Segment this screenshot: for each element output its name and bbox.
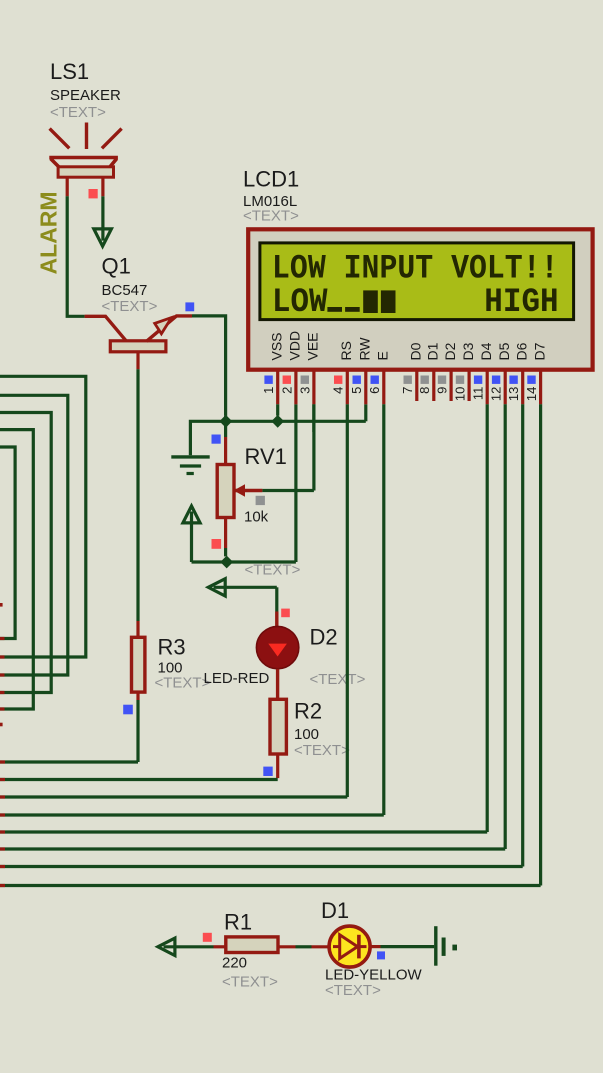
resistor R2 bottom stub	[276, 754, 279, 778]
svg-text:<TEXT>: <TEXT>	[155, 675, 211, 692]
terminal arrow left (R1 input net)	[158, 938, 214, 955]
svg-text:LCD1: LCD1	[243, 167, 299, 192]
speaker LS1 labels	[50, 59, 121, 121]
wire bus line to pin4 RS (bottom)	[0, 795, 347, 798]
svg-text:<TEXT>: <TEXT>	[245, 562, 301, 579]
junction Q1 emitter / RV1 top / ground rail	[219, 415, 232, 428]
svg-text:E: E	[375, 351, 391, 360]
speaker LS1 horn and body	[49, 158, 118, 178]
wire pin4 RS long riser	[346, 404, 349, 797]
transistor Q1 labels	[102, 254, 158, 316]
pin marker square (D1 cathode, blue)	[377, 951, 385, 959]
svg-text:<TEXT>: <TEXT>	[243, 208, 299, 225]
svg-text:D5: D5	[496, 342, 512, 360]
svg-text:VDD: VDD	[287, 331, 303, 361]
svg-text:14: 14	[524, 387, 539, 401]
resistor R2 labels	[294, 699, 350, 760]
potentiometer RV1 top stub	[224, 416, 227, 437]
svg-text:D3: D3	[460, 342, 476, 360]
svg-text:11: 11	[471, 387, 486, 401]
svg-text:HIGH: HIGH	[484, 284, 558, 322]
svg-text:SPEAKER: SPEAKER	[50, 87, 121, 104]
wire Q1 base down to R3	[136, 369, 139, 621]
LCD LCD1 outer body	[248, 229, 592, 369]
wire loop V2	[0, 430, 33, 709]
speaker LS1 sound rays	[50, 123, 122, 150]
potentiometer RV1 body	[217, 465, 234, 518]
resistor R3 body	[132, 637, 145, 692]
LCD LCD1 screen	[260, 243, 574, 320]
resistor R3 labels	[155, 635, 211, 692]
potentiometer RV1 labels	[244, 444, 301, 579]
svg-text:D7: D7	[531, 342, 547, 360]
svg-text:D0: D0	[408, 342, 424, 360]
svg-text:2: 2	[279, 387, 294, 394]
svg-text:BC547: BC547	[102, 282, 148, 299]
potentiometer RV1 bottom stub	[224, 518, 227, 549]
terminal arrow left (to D2 anode net)	[208, 579, 276, 596]
wire +5V rail to pin2 VDD riser	[192, 404, 296, 562]
wire bus line to pin6 E (bottom)	[0, 813, 384, 816]
wire bus line to pin13 D6 (bottom)	[0, 865, 523, 868]
svg-text:<TEXT>: <TEXT>	[325, 982, 381, 999]
transistor Q1 collector lead	[85, 316, 127, 341]
LED D2 cathode lead to R2	[276, 669, 279, 700]
resistor R1 left stub	[214, 945, 226, 948]
pin marker square (R2 bottom, blue)	[263, 767, 272, 776]
svg-text:8: 8	[417, 387, 432, 394]
wire speaker right leg down to terminal arrow	[101, 196, 104, 240]
transistor Q1 emitter lead with arrowhead	[147, 316, 193, 341]
svg-text:ALARM: ALARM	[36, 191, 62, 274]
transistor Q1 base lead stub	[136, 352, 139, 370]
wire down to LED D2	[275, 587, 278, 611]
wire RV1 wiper to pin3 VEE riser	[262, 404, 314, 490]
resistor R2 body	[270, 699, 286, 754]
wire D1 to battery terminal	[370, 945, 434, 948]
off-page pin stubs at left edge	[0, 639, 5, 886]
svg-text:9: 9	[435, 387, 450, 394]
wire R1 to D1	[278, 945, 330, 948]
svg-text:13: 13	[506, 387, 521, 401]
wire speaker left leg down to Q1 collector corner	[66, 196, 85, 316]
svg-text:VEE: VEE	[305, 332, 321, 360]
off-page pin stub (left edge, y604)	[0, 603, 3, 607]
wire pin3 VEE riser (upper part)	[312, 404, 315, 432]
pin marker square (Q1 emitter, blue)	[185, 302, 194, 311]
svg-text:<TEXT>: <TEXT>	[222, 974, 278, 991]
wire pin14 D7 long riser	[539, 404, 542, 885]
svg-text:6: 6	[367, 387, 382, 394]
wire bus line to R2 (bottom)	[0, 778, 278, 781]
svg-text:10: 10	[453, 387, 468, 401]
svg-text:<TEXT>: <TEXT>	[50, 104, 106, 121]
svg-text:7: 7	[400, 387, 415, 394]
resistor R1 body	[226, 937, 278, 953]
svg-text:5: 5	[349, 387, 364, 394]
svg-text:R3: R3	[158, 635, 186, 660]
pin marker square (RV1 bottom, red)	[212, 539, 222, 549]
wire pin1 VSS to ground-rail junction	[276, 404, 279, 415]
junction RV1 bottom / +5V rail	[220, 556, 233, 569]
svg-text:10k: 10k	[244, 509, 269, 526]
wire pin5 RW riser to ground rail	[364, 404, 367, 421]
LCD LCD1 pin numbers 1-14	[261, 387, 539, 401]
wire pin12 D5 long riser	[504, 404, 507, 849]
transistor Q1 base bar	[110, 341, 166, 352]
wire Q1 emitter to ground rail	[192, 316, 226, 416]
LED D2 anode stub	[275, 612, 278, 629]
wire pin6 E long riser	[382, 404, 385, 815]
potentiometer RV1 wiper arrow	[234, 484, 263, 497]
LED D1 body	[329, 926, 370, 967]
svg-text:<TEXT>: <TEXT>	[294, 742, 350, 759]
resistor R1 labels	[222, 910, 278, 991]
LED D1 labels	[321, 898, 423, 999]
wire loop V5 (outermost nested loop)	[0, 376, 86, 657]
svg-text:LED-YELLOW: LED-YELLOW	[325, 967, 423, 984]
battery / cell terminal symbol	[436, 926, 444, 966]
resistor R3 top stub	[136, 621, 139, 638]
svg-text:Q1: Q1	[102, 254, 131, 279]
pin marker square (RV1 wiper, gray)	[256, 496, 265, 505]
svg-text:LOW INPUT VOLT!!: LOW INPUT VOLT!!	[272, 250, 559, 288]
off-page pin stub (left edge, y724.5)	[0, 723, 3, 727]
wire ground rail (VSS/RW net)	[190, 421, 365, 455]
svg-text:<TEXT>: <TEXT>	[310, 671, 366, 688]
svg-text:3: 3	[297, 387, 312, 394]
svg-text:4: 4	[331, 387, 346, 394]
wire bus line to pin14 D7 (bottom)	[0, 884, 541, 887]
terminal arrow down (alarm output)	[94, 229, 112, 246]
wire pin13 D6 long riser	[521, 404, 524, 866]
pin marker square (RV1 top, blue)	[212, 435, 221, 444]
svg-text:D4: D4	[478, 342, 494, 360]
LCD LCD1 pin stubs 1-14	[278, 370, 541, 405]
terminal arrow up (+5V supply)	[183, 506, 200, 562]
wire pin11 D4 long riser	[486, 404, 489, 832]
svg-text:RW: RW	[357, 337, 373, 361]
svg-text:RV1: RV1	[245, 444, 287, 469]
svg-text:D2: D2	[442, 342, 458, 360]
svg-text:LED-RED: LED-RED	[204, 670, 270, 687]
svg-text:D1: D1	[425, 342, 441, 360]
svg-text:12: 12	[489, 387, 504, 401]
wire loop V3	[0, 413, 51, 693]
LCD LCD1 screen text line 2	[272, 284, 559, 322]
LCD LCD1 labels	[243, 167, 299, 225]
wire R3 bottom to left edge bus	[0, 700, 138, 762]
LED D2 body	[256, 626, 298, 668]
wire loop V4	[0, 395, 68, 675]
LCD LCD1 pin name labels VSS..D7	[268, 331, 547, 361]
svg-text:LS1: LS1	[50, 59, 89, 84]
resistor R3 bottom stub	[136, 692, 139, 700]
svg-text:D6: D6	[513, 342, 529, 360]
svg-text:D1: D1	[321, 898, 349, 923]
svg-text:R2: R2	[294, 699, 322, 724]
speaker LS1 pin stubs	[67, 177, 103, 196]
svg-text:RS: RS	[338, 341, 354, 360]
LED D2 labels	[204, 625, 366, 689]
svg-text:R1: R1	[224, 910, 252, 935]
pin marker square (R1 left, red)	[203, 933, 212, 942]
junction VSS pin 1 on ground rail	[271, 415, 284, 428]
svg-text:VSS: VSS	[268, 332, 284, 360]
wire bus line to pin11 D4 (bottom)	[0, 830, 487, 833]
pin marker square (D2 anode, red)	[281, 609, 290, 618]
svg-text:<TEXT>: <TEXT>	[102, 298, 158, 315]
svg-text:100: 100	[294, 726, 319, 743]
pin marker square (speaker right pin, red)	[89, 189, 98, 198]
pin marker square (R3 bottom, blue)	[123, 705, 133, 715]
wire bus line to pin12 D5 (bottom)	[0, 847, 505, 850]
svg-text:220: 220	[222, 955, 247, 972]
ground	[171, 457, 209, 474]
svg-text:LOW: LOW	[272, 284, 328, 322]
svg-text:D2: D2	[310, 625, 338, 650]
pin marker squares LCD pins 1-14	[264, 376, 535, 384]
svg-text:1: 1	[261, 387, 276, 394]
wire loop V1 (innermost nested loop)	[0, 447, 15, 639]
